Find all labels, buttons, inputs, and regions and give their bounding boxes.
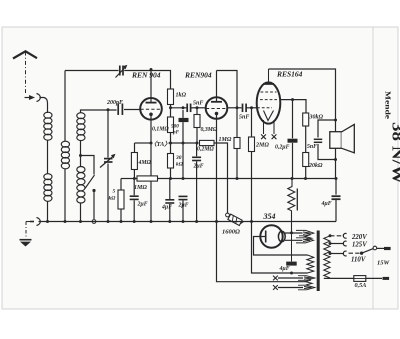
wire C1 to ground bus [107, 164, 109, 222]
svg-text:1MΩ: 1MΩ [134, 185, 147, 191]
svg-text:4µF: 4µF [321, 201, 332, 207]
wire 20k to rail [305, 167, 307, 179]
antenna plug stub [25, 97, 30, 99]
wire 4µF to bus [169, 204, 171, 222]
capacitor 5nF speaker [314, 139, 322, 142]
node bus L3 [79, 220, 82, 223]
wire speaker line [335, 120, 337, 179]
node tap 125V [329, 242, 332, 245]
resistor 20kΩ [303, 153, 309, 167]
V1 cathode [149, 113, 153, 117]
wire tap to switch S1 [81, 156, 95, 175]
node L3 tap [79, 154, 82, 157]
wire 2M to bus [251, 152, 253, 222]
svg-text:220V: 220V [351, 234, 367, 241]
coil L3 upper [77, 113, 85, 141]
svg-text:Mende: Mende [384, 91, 393, 120]
heater winding b [298, 285, 315, 290]
wire 2µFc to bus [196, 161, 198, 221]
mains switch contact [373, 246, 377, 250]
wire TA to 4M [134, 143, 136, 153]
node bus L1 [46, 220, 49, 223]
ground symbol [20, 239, 32, 241]
capacitor 2µF c [192, 157, 201, 160]
wire rail to 4µF [169, 179, 171, 200]
transformer core [317, 231, 320, 292]
node B+ raw [290, 231, 293, 234]
triode V2 REN904 [206, 71, 228, 119]
mains terminal a [384, 247, 391, 250]
rail y178 seg2 [158, 178, 337, 180]
wire 1M anode to rail [236, 149, 238, 179]
node bus 5k [120, 220, 123, 223]
node bus C1 [107, 220, 110, 223]
resistor 1MΩ anode [234, 138, 240, 149]
capacitor 2µF [130, 196, 139, 199]
node 500pF top [182, 106, 185, 109]
node 5nF2 left [236, 106, 239, 109]
capacitor 2µF b [179, 196, 188, 199]
wire 0,2M to 1600Ω [214, 143, 228, 213]
terminal 1600Ω [226, 213, 230, 217]
svg-text:125V: 125V [352, 242, 367, 249]
wire 4M to rail [133, 170, 135, 179]
capacitor 5nF coupling [187, 104, 190, 113]
wire L1 to ground bus [47, 201, 49, 222]
ground plug stub [30, 221, 34, 223]
switch S1 arm [85, 175, 95, 189]
node bus V2 cathode [215, 220, 218, 223]
mains terminal b [383, 277, 390, 280]
filament terminal x2 [272, 134, 277, 139]
wire to ground [26, 221, 30, 223]
fuse 0,5A [354, 276, 366, 282]
wire rail to 4µF d [335, 179, 337, 195]
pentode V3 RES164 [257, 69, 281, 134]
resistor 30kΩ [168, 154, 174, 169]
node rail field coil [291, 177, 294, 180]
connector 125V [343, 241, 346, 246]
resistor 1kΩ [168, 89, 174, 105]
trimmer capacitor C2 [120, 66, 123, 76]
svg-text:pF: pF [172, 130, 180, 136]
wire 30k to 20k [305, 126, 307, 153]
coil L1 upper [44, 112, 52, 140]
wire 5k to bus [120, 209, 122, 222]
field coil core [296, 189, 298, 211]
TA line left [135, 142, 151, 144]
wire L3 to ground bus [80, 203, 82, 222]
svg-text:4µF: 4µF [279, 266, 290, 272]
wire TA to 30k [170, 143, 172, 154]
wire 2µFb to bus [182, 201, 184, 222]
tap 220V wire [330, 235, 344, 237]
svg-text:15W: 15W [377, 260, 391, 267]
ground bus [39, 221, 337, 223]
HV winding half b [296, 238, 314, 243]
wire jack to L1 [40, 98, 48, 114]
node V3 grid [250, 106, 253, 109]
top rail left of trimmer [65, 70, 119, 72]
wire 5nF2 to V3 grid [247, 107, 258, 109]
V2 cathode [215, 112, 219, 116]
resistor 1MΩ [137, 176, 158, 181]
connector 220V [343, 233, 346, 238]
wire V4 anode b [285, 239, 303, 241]
node screen [291, 98, 294, 101]
svg-text:1kΩ: 1kΩ [176, 93, 187, 99]
capacitor 0,2µF [288, 139, 298, 143]
wire 1k to node [170, 105, 172, 118]
node rail 30k [169, 177, 172, 180]
wire rail to 5k [120, 179, 122, 191]
svg-text:38 N/W: 38 N/W [388, 122, 400, 184]
capacitor 5nF to V3 [243, 104, 247, 113]
svg-text:4MΩ: 4MΩ [138, 160, 152, 166]
svg-text:0,2µF: 0,2µF [275, 145, 290, 151]
wire heater b [278, 287, 303, 289]
wire to 500pF [182, 110, 184, 118]
svg-text:200pF: 200pF [106, 100, 123, 106]
svg-text:REN 904: REN 904 [131, 71, 161, 80]
wire 0,2µF to rail [292, 143, 294, 179]
svg-text:2µF: 2µF [178, 203, 189, 209]
wire 1600 to bus [241, 222, 244, 224]
wire 2µF to bus [133, 200, 135, 221]
coil L2 [61, 141, 69, 169]
svg-text:kΩ: kΩ [109, 196, 117, 202]
node cathode TA [150, 142, 153, 145]
5nF loop bottom [318, 144, 336, 160]
wire rail to 2µF [133, 179, 135, 196]
wire fuse to terminal [366, 277, 382, 279]
node TA 0,1M [169, 142, 172, 145]
switch S1 contact [92, 189, 95, 192]
wire 30k to rail [170, 168, 172, 179]
node V1 anode RC [169, 106, 172, 109]
tap 110V wire [330, 253, 344, 255]
resistor 30kΩ b [303, 113, 309, 126]
wire L1 mid [47, 140, 49, 174]
wire 200pF to V1 grid [124, 109, 141, 111]
ground lead [25, 222, 27, 237]
heater winding middle turns [306, 280, 313, 285]
switch pivot [360, 252, 363, 255]
tap 125V wire [330, 243, 344, 245]
node rail 500p line [182, 177, 185, 180]
node TA 500pF [182, 142, 185, 145]
node rail 1MΩ anode [236, 177, 239, 180]
wire 0,3M to TA [196, 128, 198, 144]
wire winding to fuse [324, 277, 354, 279]
wire screen to 30k [280, 100, 306, 113]
resistor 2MΩ [249, 137, 255, 152]
node V1 anode on rail [150, 68, 153, 71]
svg-text:0,5A: 0,5A [355, 282, 367, 289]
wire V2 cathode down [216, 114, 218, 222]
switch feed wire [349, 252, 360, 254]
wire screen to 0,2µF [292, 100, 294, 139]
field coil / choke (zigzag) [288, 179, 295, 233]
wire switch to terminal [377, 247, 384, 249]
wire heater long [217, 222, 307, 282]
wire V4 filament left to winding [254, 237, 308, 256]
wire to tuning cap C1 [107, 110, 109, 158]
node tuning cap tap [107, 108, 110, 111]
filament terminal x1 [261, 134, 266, 139]
capacitor 200pF [118, 103, 122, 115]
capacitor 500pF [179, 118, 189, 122]
wire to 2µF c [196, 143, 198, 156]
resistor 0,2MΩ [200, 140, 215, 145]
svg-text:0,3MΩ: 0,3MΩ [201, 127, 218, 133]
connector 110V [343, 251, 346, 256]
capacitor 4µF reservoir [286, 262, 297, 266]
capacitor 4µF (output) [332, 196, 341, 199]
resistor 5kΩ [118, 190, 124, 209]
svg-text:2µF: 2µF [193, 164, 204, 170]
wire V4 anode a [285, 232, 303, 234]
wire switch to bus [93, 191, 95, 220]
wire V2 to 5nF2 [227, 107, 242, 109]
wire bus to winding bottom [252, 222, 308, 274]
svg-text:354: 354 [263, 212, 276, 221]
node rail 4µF [335, 177, 338, 180]
node bus 2M [250, 220, 253, 223]
5nF loop top [318, 120, 336, 138]
node TA 0,3M [196, 142, 199, 145]
triode V1 REN 904 [140, 70, 162, 120]
HV winding half a [296, 230, 314, 235]
ground jack [37, 218, 41, 226]
node rail 20k [304, 177, 307, 180]
heater terminal x3 [273, 276, 278, 281]
svg-text:0,2MΩ: 0,2MΩ [197, 147, 214, 153]
TA line right [169, 142, 198, 144]
resistor 0,1MΩ [168, 117, 174, 133]
node rail 4MΩ [133, 177, 136, 180]
resistor 4MΩ [131, 153, 137, 170]
wire L2 to ground bus [64, 169, 66, 222]
antenna plug arrow [29, 95, 35, 100]
node tap 220V [329, 234, 332, 237]
svg-text:2µF: 2µF [137, 202, 148, 208]
capacitor 4µF [165, 200, 174, 203]
wire grid to 0,3M [196, 108, 198, 115]
coil L3 lower [77, 167, 85, 204]
svg-text:4µF: 4µF [161, 205, 172, 211]
grid tank wire to 200pF [81, 110, 117, 113]
antenna [13, 51, 37, 58]
wire heater a [278, 277, 303, 279]
resistor 1600Ω (barretter) [228, 214, 242, 225]
heater terminal x4 [273, 285, 278, 290]
svg-text:30: 30 [175, 155, 182, 161]
svg-text:5: 5 [113, 189, 116, 195]
wire V1 cathode down [150, 114, 152, 221]
wire 0,1M to TA line [170, 133, 172, 144]
wire B+ to 4µF c [291, 233, 293, 262]
variable capacitor C1 (tuning) [104, 159, 113, 162]
wire L2 top lead [64, 71, 66, 142]
top rail to 1k resistor [124, 71, 170, 90]
svg-text:REN904: REN904 [184, 71, 212, 80]
connector on bus [92, 220, 96, 224]
node bus 2µFb [182, 220, 185, 223]
rectifier filament winding [307, 255, 314, 273]
svg-text:20kΩ: 20kΩ [308, 163, 323, 169]
svg-text:5nF: 5nF [239, 115, 249, 121]
svg-text:5nF: 5nF [307, 144, 317, 150]
antenna lead (dash-dot) [25, 52, 27, 94]
svg-text:5nF: 5nF [193, 101, 203, 107]
svg-text:kΩ: kΩ [176, 162, 184, 168]
node tap 110V [329, 252, 332, 255]
wire grid to 2MΩ [251, 108, 253, 137]
rail y178 seg1 [121, 178, 137, 180]
svg-text:〈TA〉: 〈TA〉 [151, 140, 171, 148]
wire 5nF to V2 grid [191, 107, 206, 109]
svg-text:RES164: RES164 [276, 70, 303, 79]
svg-text:2MΩ: 2MΩ [255, 143, 269, 149]
node speaker top [334, 119, 337, 122]
wire 4µF d to bus [335, 199, 337, 221]
wire V3 anode to speaker [269, 69, 336, 120]
coil L1 lower [44, 174, 52, 202]
HV winding middle turns [305, 235, 312, 240]
svg-text:110V: 110V [351, 257, 366, 264]
wire V2 anode bracket [217, 71, 238, 138]
node V2 grid [196, 106, 199, 109]
wire 500pF down to rail [182, 122, 184, 178]
wire node to 5nF [171, 107, 187, 109]
wire L3 mid [80, 140, 82, 166]
node 4µF c bottom [290, 272, 293, 275]
mains switch arm [362, 249, 374, 254]
primary winding [324, 236, 330, 278]
node speaker bottom [334, 158, 337, 161]
loudspeaker [330, 124, 355, 152]
resistor 0,3MΩ [194, 115, 200, 128]
node bus L2 [64, 220, 67, 223]
node bus 2µF [133, 220, 136, 223]
svg-text:1600Ω: 1600Ω [222, 229, 240, 236]
node bus 2µFc [195, 220, 198, 223]
rectifier V4 354 [260, 225, 285, 247]
svg-text:0,1MΩ: 0,1MΩ [152, 127, 169, 133]
heater winding a [298, 276, 315, 281]
node bus V1 cathode [150, 220, 153, 223]
node bus 4µF [168, 220, 171, 223]
antenna jack [37, 94, 41, 102]
svg-text:1MΩ: 1MΩ [219, 137, 232, 143]
